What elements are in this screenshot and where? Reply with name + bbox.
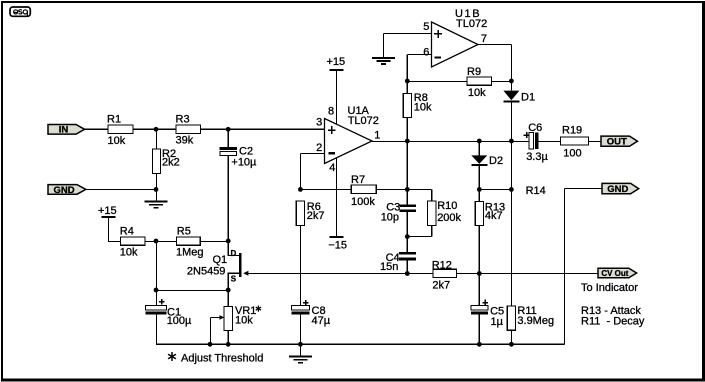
svg-text:GND: GND: [53, 185, 74, 196]
svg-text:2N5459: 2N5459: [187, 265, 226, 277]
svg-text:39k: 39k: [176, 135, 194, 147]
svg-text:R12: R12: [432, 259, 452, 271]
svg-text:47µ: 47µ: [312, 315, 331, 327]
svg-text:+15: +15: [327, 56, 346, 68]
svg-text:+10µ: +10µ: [231, 156, 257, 168]
svg-text:2k7: 2k7: [307, 210, 325, 222]
svg-text:C6: C6: [528, 122, 542, 134]
svg-text:OUT: OUT: [607, 137, 627, 148]
svg-text:D: D: [231, 249, 237, 258]
svg-text:1: 1: [374, 130, 380, 142]
svg-text:100: 100: [563, 148, 581, 160]
svg-text:−15: −15: [328, 240, 347, 252]
svg-text:D2: D2: [489, 155, 503, 167]
svg-text:R5: R5: [177, 226, 191, 238]
svg-text:R3: R3: [176, 114, 190, 126]
svg-text:U1B: U1B: [455, 8, 481, 20]
svg-text:100k: 100k: [351, 196, 375, 208]
svg-text:3.3µ: 3.3µ: [526, 151, 548, 163]
svg-text:3: 3: [316, 117, 322, 129]
svg-text:10k: 10k: [108, 135, 126, 147]
svg-text:10p: 10p: [381, 211, 399, 223]
svg-text:R10: R10: [437, 200, 457, 212]
svg-text:3.9Meg: 3.9Meg: [517, 315, 554, 327]
svg-text:7: 7: [481, 33, 487, 45]
svg-text:IN: IN: [59, 125, 69, 136]
svg-text:8: 8: [328, 106, 334, 118]
svg-text:R14: R14: [526, 185, 546, 197]
svg-text:S: S: [231, 274, 237, 283]
svg-text:1Meg: 1Meg: [176, 246, 204, 258]
svg-text:CV Out: CV Out: [601, 269, 628, 278]
svg-text:4k7: 4k7: [485, 210, 503, 222]
svg-text:1µ: 1µ: [491, 316, 504, 328]
svg-text:5: 5: [423, 21, 429, 33]
svg-text:2k2: 2k2: [162, 157, 180, 169]
svg-text:4: 4: [329, 162, 335, 174]
svg-text:2: 2: [316, 142, 322, 154]
svg-text:R7: R7: [351, 174, 365, 186]
svg-text:15n: 15n: [380, 261, 398, 273]
svg-text:R9: R9: [467, 66, 481, 78]
svg-text:200k: 200k: [437, 212, 461, 224]
svg-text:100µ: 100µ: [167, 315, 192, 327]
svg-text:GND: GND: [607, 184, 628, 195]
svg-text:R1: R1: [107, 114, 121, 126]
svg-text:6: 6: [423, 47, 429, 59]
svg-text:2k7: 2k7: [432, 279, 450, 291]
svg-text:+15: +15: [98, 205, 117, 217]
svg-text:Adjust Threshold: Adjust Threshold: [181, 353, 263, 365]
svg-text:To Indicator: To Indicator: [581, 282, 638, 294]
svg-text:R19: R19: [562, 124, 582, 136]
svg-text:10k: 10k: [468, 87, 486, 99]
svg-text:Q1: Q1: [213, 254, 228, 266]
svg-text:10k: 10k: [414, 102, 432, 114]
svg-text:D1: D1: [521, 91, 535, 103]
svg-text:10k: 10k: [120, 246, 138, 258]
svg-text:TL072: TL072: [348, 115, 379, 127]
svg-text:R11 - Decay: R11 - Decay: [581, 315, 645, 327]
svg-text:R4: R4: [120, 226, 134, 238]
svg-text:10k: 10k: [235, 315, 253, 327]
